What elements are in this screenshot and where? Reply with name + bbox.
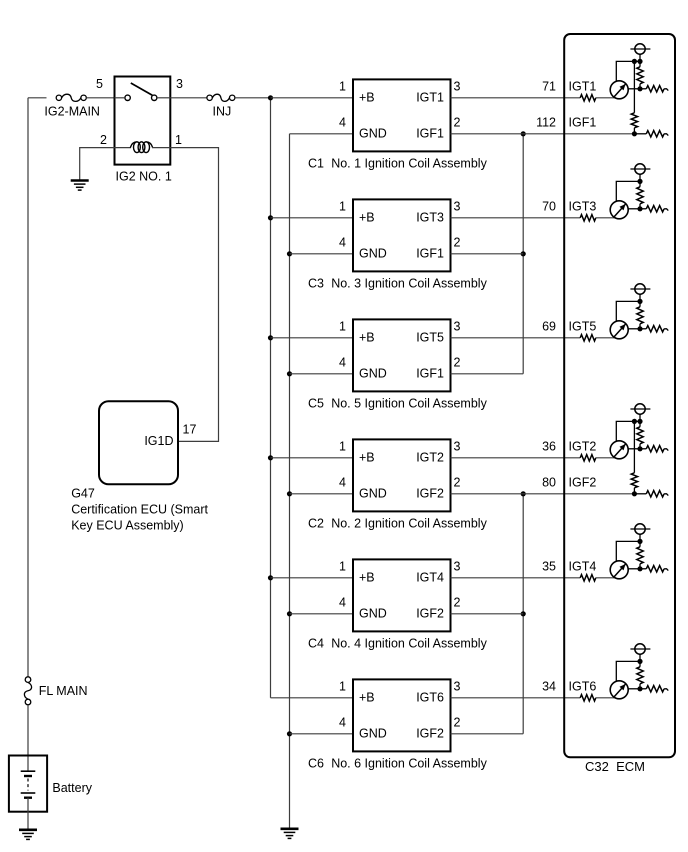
svg-text:1: 1 <box>339 559 346 573</box>
svg-text:80: 80 <box>542 475 556 489</box>
ECM net label IGT4 <box>569 559 597 573</box>
C2 label IGF2 <box>416 487 444 501</box>
wire: IGT4 resistor to transistor base <box>596 577 615 579</box>
svg-text:Certification ECU (Smart: Certification ECU (Smart <box>71 503 208 517</box>
svg-text:IGT1: IGT1 <box>569 79 597 93</box>
C6 pin 4 label <box>339 715 346 729</box>
node: IGF1 sense node <box>632 131 637 136</box>
svg-text:C32 ECM: C32 ECM <box>585 759 645 774</box>
wire: relay pin 1 to IG1D terminal 17 <box>170 148 218 442</box>
fuse FL MAIN <box>24 677 87 705</box>
resistor (collector pull-up IGT1) <box>637 61 643 88</box>
resistor (IGT3 base) <box>580 215 596 221</box>
wire: GND bus to C6 pin 4 <box>290 733 354 735</box>
resistor (IGT6 base) <box>580 695 596 701</box>
svg-text:IGT2: IGT2 <box>569 439 597 453</box>
svg-text:IGT5: IGT5 <box>569 319 597 333</box>
C5 pin 4 label <box>339 355 346 369</box>
svg-text:3: 3 <box>454 79 461 93</box>
C2 pin 4 label <box>339 475 346 489</box>
svg-text:4: 4 <box>339 115 346 129</box>
svg-text:34: 34 <box>542 679 556 693</box>
C5 label +B <box>359 331 375 345</box>
caption C32 ECM <box>585 759 645 774</box>
wire: +B bus to C1 pin 1 <box>271 97 354 99</box>
C3 pin 3 label <box>454 199 461 213</box>
wire: emitter link (IGT2) <box>616 421 640 441</box>
ignition coil C6 box <box>353 679 451 751</box>
relay switch contact (pin 3 side) <box>152 95 171 100</box>
svg-text:IG2 NO. 1: IG2 NO. 1 <box>116 170 172 184</box>
svg-text:IGF2: IGF2 <box>416 487 444 501</box>
wire: IGT1 resistor to transistor base <box>596 97 615 99</box>
C1 pin 3 label <box>454 79 461 93</box>
svg-text:2: 2 <box>100 133 107 147</box>
wire: IGT6 resistor to transistor base <box>596 697 615 699</box>
svg-text:1: 1 <box>339 79 346 93</box>
wire: +B bus to C2 pin 1 <box>271 457 354 459</box>
wire: GND bus to C2 pin 4 <box>290 493 354 495</box>
wire: IGT6 from C6 pin 3 to ECM <box>451 697 581 699</box>
wire: +B bus to C5 pin 1 <box>271 337 354 339</box>
caption C6 No. 6 Ignition Coil Assembly <box>308 756 488 770</box>
node: IGF2 bus at C4 <box>521 611 526 616</box>
svg-text:3: 3 <box>454 319 461 333</box>
resistor (collector pull-up IGT3) <box>637 181 643 208</box>
svg-text:C4: C4 <box>308 636 324 650</box>
svg-text:Key ECU Assembly): Key ECU Assembly) <box>71 519 184 533</box>
node: emitter junction (IGT6) <box>637 659 642 664</box>
fuse INJ <box>207 94 235 118</box>
ECM C32 box <box>564 34 675 757</box>
svg-text:IGF1: IGF1 <box>416 247 444 261</box>
node: emitter junction (IGT3) <box>637 179 642 184</box>
node: +B bus at INJ feed <box>268 95 273 100</box>
svg-text:IGT2: IGT2 <box>416 451 444 465</box>
wire: GND bus to C3 pin 4 <box>290 253 354 255</box>
node: GND bus junction row 6 <box>287 731 292 736</box>
C1 label +B <box>359 91 375 105</box>
wire: FL MAIN fuse to battery <box>27 705 29 771</box>
transistor Q (IGT5 output) <box>610 321 640 339</box>
C4 label IGT4 <box>416 571 444 585</box>
ECM net label IGT1 <box>569 79 597 93</box>
node: +B bus junction row 4 <box>268 455 273 460</box>
node: collector node (IGT2) <box>637 446 642 451</box>
relay switch contact (pin 5 side) <box>115 95 131 100</box>
svg-text:3: 3 <box>176 77 183 91</box>
node: emitter junction (IGT5) <box>637 299 642 304</box>
node: collector node (IGT5) <box>637 326 642 331</box>
ground (ignition coil GND bus) <box>281 829 299 839</box>
svg-text:C1: C1 <box>308 156 324 170</box>
svg-text:IG1D: IG1D <box>144 434 173 448</box>
resistor (collector pull-up IGT5) <box>637 301 643 328</box>
resistor (IGT2 base) <box>580 455 596 461</box>
wire: IGF1 from C3 pin 2 to IGF1 bus <box>451 253 524 255</box>
svg-text:IGF2: IGF2 <box>569 475 597 489</box>
svg-text:IGT4: IGT4 <box>569 559 597 573</box>
ECM pin 71 label (IGT1) <box>542 79 556 93</box>
wire: +B bus to C3 pin 1 <box>271 217 354 219</box>
caption Certification ECU line 2 <box>71 519 184 533</box>
pin 2 label <box>100 133 107 147</box>
C6 label IGT6 <box>416 691 444 705</box>
resistor (output network IGT5) <box>640 326 668 332</box>
C3 label GND <box>359 247 387 261</box>
resistor (IGT5 base) <box>580 335 596 341</box>
wire: IGT2 resistor to transistor base <box>596 457 615 459</box>
caption Certification ECU line 1 <box>71 503 208 517</box>
caption C1 No. 1 Ignition Coil Assembly <box>308 156 488 170</box>
C1 pin 1 label <box>339 79 346 93</box>
caption C4 No. 4 Ignition Coil Assembly <box>308 636 488 650</box>
C5 pin 3 label <box>454 319 461 333</box>
wire: IGT5 resistor to transistor base <box>596 337 615 339</box>
wire: GND bus to C1 pin 4 <box>290 133 354 135</box>
C5 pin 2 label <box>454 355 461 369</box>
svg-text:IGF2: IGF2 <box>416 607 444 621</box>
transistor Q (IGT3 output) <box>610 201 640 219</box>
wire: GND bus to C5 pin 4 <box>290 373 354 375</box>
relay switch blade <box>131 83 153 95</box>
power source symbol (IGT5 driver) <box>630 284 650 302</box>
wire: IGT5 from C5 pin 3 to ECM <box>451 337 581 339</box>
resistor (output network IGT4) <box>640 566 668 572</box>
wire: IGT4 from C4 pin 3 to ECM <box>451 577 581 579</box>
wire: relay pin 2 lead <box>115 147 132 149</box>
node: GND bus junction row 4 <box>287 491 292 496</box>
caption C5 No. 5 Ignition Coil Assembly <box>308 396 488 410</box>
ECM net label IGT3 <box>569 199 597 213</box>
C3 label +B <box>359 211 375 225</box>
resistor (sense network IGF1) <box>634 131 668 137</box>
ECM net label IGF2 <box>569 475 597 489</box>
transistor Q (IGT1 output) <box>610 81 640 99</box>
svg-text:3: 3 <box>454 559 461 573</box>
caption G47 <box>71 487 95 501</box>
svg-text:IGT5: IGT5 <box>416 331 444 345</box>
svg-text:+B: +B <box>359 691 375 705</box>
C3 label IGF1 <box>416 247 444 261</box>
ECM pin 112 label (IGF1) <box>536 115 556 129</box>
svg-text:+B: +B <box>359 571 375 585</box>
power source symbol (IGT6 driver) <box>630 644 650 662</box>
node: IGF2 bus at C2 <box>521 491 526 496</box>
svg-text:Battery: Battery <box>52 781 92 795</box>
svg-text:4: 4 <box>339 235 346 249</box>
resistor (IGF1 divider) <box>631 113 637 134</box>
node: emitter junction (IGT1) <box>637 59 642 64</box>
wire: IGF2 from C6 pin 2 to IGF2 bus <box>451 733 524 735</box>
C1 pin 4 label <box>339 115 346 129</box>
svg-text:+B: +B <box>359 211 375 225</box>
C2 pin 2 label <box>454 475 461 489</box>
C4 pin 3 label <box>454 559 461 573</box>
wire: +B bus to C6 pin 1 <box>271 697 354 699</box>
svg-text:IGT6: IGT6 <box>416 691 444 705</box>
wire: IGF2 from C4 pin 2 to IGF2 bus <box>451 613 524 615</box>
svg-text:C5: C5 <box>308 396 324 410</box>
battery box <box>9 756 47 812</box>
ignition coil C1 box <box>353 79 451 151</box>
resistor (collector pull-up IGT4) <box>637 541 643 568</box>
C3 pin 4 label <box>339 235 346 249</box>
C4 label +B <box>359 571 375 585</box>
C1 label GND <box>359 127 387 141</box>
wire: battery negative to ground <box>27 798 29 830</box>
power source symbol (IGT4 driver) <box>630 524 650 542</box>
svg-text:No. 1 Ignition Coil Assembly: No. 1 Ignition Coil Assembly <box>331 156 487 170</box>
C4 pin 2 label <box>454 595 461 609</box>
wire: IGF1 from C5 pin 2 to IGF1 bus <box>451 373 524 375</box>
C2 label GND <box>359 487 387 501</box>
svg-text:4: 4 <box>339 475 346 489</box>
node: emitter junction (IGT2) <box>637 419 642 424</box>
svg-text:No. 3 Ignition Coil Assembly: No. 3 Ignition Coil Assembly <box>331 276 487 290</box>
svg-text:+B: +B <box>359 91 375 105</box>
resistor (IGT1 base) <box>580 95 596 101</box>
C6 label GND <box>359 727 387 741</box>
svg-text:IGT1: IGT1 <box>416 91 444 105</box>
ECM pin 34 label (IGT6) <box>542 679 556 693</box>
pin 3 label <box>176 77 183 91</box>
wire: +B distribution bus vertical <box>270 98 272 698</box>
svg-text:1: 1 <box>339 319 346 333</box>
svg-text:1: 1 <box>339 199 346 213</box>
power source symbol (IGT2 driver) <box>630 404 650 422</box>
svg-text:35: 35 <box>542 559 556 573</box>
wire: IGF1 divider branch <box>633 61 635 112</box>
node: GND bus junction row 3 <box>287 371 292 376</box>
fuse IG2-MAIN <box>44 94 100 118</box>
resistor (IGF2 divider) <box>631 473 637 494</box>
node: +B bus junction row 3 <box>268 335 273 340</box>
C4 pin 4 label <box>339 595 346 609</box>
wire: battery B+ bus vertical (left side) <box>27 98 29 677</box>
C6 label +B <box>359 691 375 705</box>
resistor (output network IGT2) <box>640 446 668 452</box>
resistor (collector pull-up IGT6) <box>637 661 643 688</box>
svg-text:36: 36 <box>542 439 556 453</box>
svg-text:No. 4 Ignition Coil Assembly: No. 4 Ignition Coil Assembly <box>331 636 487 650</box>
svg-text:GND: GND <box>359 727 387 741</box>
wire: IGT1 from C1 pin 3 to ECM <box>451 97 581 99</box>
svg-text:2: 2 <box>454 115 461 129</box>
relay IG2 NO. 1 box <box>115 77 171 165</box>
wire: coil GND bus vertical <box>289 134 291 829</box>
relay coil winding <box>130 142 152 153</box>
svg-text:4: 4 <box>339 595 346 609</box>
svg-text:IGF1: IGF1 <box>569 115 597 129</box>
svg-text:1: 1 <box>339 439 346 453</box>
caption C3 No. 3 Ignition Coil Assembly <box>308 276 488 290</box>
C5 label GND <box>359 367 387 381</box>
wire: emitter link (IGT1) <box>616 61 640 81</box>
ignition coil C4 box <box>353 559 451 631</box>
C2 pin 1 label <box>339 439 346 453</box>
svg-text:IG2-MAIN: IG2-MAIN <box>44 105 100 119</box>
svg-text:+B: +B <box>359 451 375 465</box>
resistor (IGT4 base) <box>580 575 596 581</box>
svg-text:IGT6: IGT6 <box>569 679 597 693</box>
resistor (output network IGT3) <box>640 206 668 212</box>
svg-text:GND: GND <box>359 247 387 261</box>
svg-text:C3: C3 <box>308 276 324 290</box>
C4 label IGF2 <box>416 607 444 621</box>
node: IGF2 sense node <box>632 491 637 496</box>
C6 label IGF2 <box>416 727 444 741</box>
ECU G47 box (IG1D) <box>99 401 178 484</box>
node: IGF1 bus at C1 <box>521 131 526 136</box>
pin 5 label <box>96 77 103 91</box>
wire: relay pin 3 to INJ fuse <box>170 97 207 99</box>
C3 pin 1 label <box>339 199 346 213</box>
ECM net label IGT5 <box>569 319 597 333</box>
svg-text:No. 6 Ignition Coil Assembly: No. 6 Ignition Coil Assembly <box>331 756 487 770</box>
svg-text:IGF1: IGF1 <box>416 367 444 381</box>
wire: B+ bus to IG2-MAIN fuse <box>28 97 47 99</box>
power source symbol (IGT3 driver) <box>630 164 650 182</box>
svg-text:IGT3: IGT3 <box>569 199 597 213</box>
wire: IGF1 feedback bus vertical <box>522 134 524 374</box>
svg-text:IGF2: IGF2 <box>416 727 444 741</box>
svg-text:+B: +B <box>359 331 375 345</box>
node: collector node (IGT6) <box>637 686 642 691</box>
svg-text:2: 2 <box>454 595 461 609</box>
wire: emitter link (IGT5) <box>616 301 640 321</box>
svg-text:3: 3 <box>454 679 461 693</box>
node: collector node (IGT3) <box>637 206 642 211</box>
svg-text:2: 2 <box>454 475 461 489</box>
caption C2 No. 2 Ignition Coil Assembly <box>308 516 488 530</box>
svg-text:70: 70 <box>542 199 556 213</box>
node: +B bus junction row 5 <box>268 575 273 580</box>
node: +B bus junction row 2 <box>268 215 273 220</box>
svg-text:71: 71 <box>542 79 556 93</box>
node: collector node (IGT4) <box>637 566 642 571</box>
ECM net label IGT2 <box>569 439 597 453</box>
wire: relay pin 2 to ground <box>80 148 115 181</box>
svg-text:No. 5 Ignition Coil Assembly: No. 5 Ignition Coil Assembly <box>331 396 487 410</box>
node: GND bus junction row 2 <box>287 251 292 256</box>
wire: IGT3 from C3 pin 3 to ECM <box>451 217 581 219</box>
ECM pin 70 label (IGT3) <box>542 199 556 213</box>
C3 label IGT3 <box>416 211 444 225</box>
C5 pin 1 label <box>339 319 346 333</box>
C2 label +B <box>359 451 375 465</box>
ECM pin 69 label (IGT5) <box>542 319 556 333</box>
ECM pin 80 label (IGF2) <box>542 475 556 489</box>
ignition coil C3 box <box>353 199 451 271</box>
ECM pin 35 label (IGT4) <box>542 559 556 573</box>
wire: IGF1 from C1 pin 2 to ECM <box>451 133 635 135</box>
transistor Q (IGT2 output) <box>610 441 640 459</box>
ECM net label IGF1 <box>569 115 597 129</box>
svg-text:112: 112 <box>536 115 556 129</box>
C1 label IGF1 <box>416 127 444 141</box>
battery symbol <box>21 771 36 798</box>
wire: INJ fuse to node at +B bus <box>235 97 271 99</box>
transistor Q (IGT4 output) <box>610 561 640 579</box>
svg-text:G47: G47 <box>71 487 95 501</box>
node: GND bus junction row 5 <box>287 611 292 616</box>
svg-text:3: 3 <box>454 439 461 453</box>
node: emitter junction (IGT4) <box>637 539 642 544</box>
svg-text:IGF1: IGF1 <box>416 127 444 141</box>
wire: IGF2 feedback bus vertical <box>522 494 524 734</box>
svg-text:4: 4 <box>339 355 346 369</box>
label Battery <box>52 781 92 795</box>
resistor (collector pull-up IGT2) <box>637 421 643 448</box>
resistor (output network IGT1) <box>640 86 668 92</box>
C3 pin 2 label <box>454 235 461 249</box>
svg-text:IGT3: IGT3 <box>416 211 444 225</box>
C4 pin 1 label <box>339 559 346 573</box>
svg-text:GND: GND <box>359 127 387 141</box>
wire: IGF2 from C2 pin 2 to ECM <box>451 493 635 495</box>
C6 pin 1 label <box>339 679 346 693</box>
ignition coil C5 box <box>353 319 451 391</box>
wire: IG2-MAIN fuse to relay pin 5 <box>86 97 114 99</box>
svg-text:2: 2 <box>454 235 461 249</box>
svg-text:2: 2 <box>454 355 461 369</box>
svg-text:3: 3 <box>454 199 461 213</box>
svg-text:1: 1 <box>175 133 182 147</box>
power source symbol (IGT1 driver) <box>630 44 650 62</box>
svg-text:IGT4: IGT4 <box>416 571 444 585</box>
wire: emitter link (IGT3) <box>616 181 640 201</box>
pin 1 label <box>175 133 182 147</box>
caption IG2 NO. 1 <box>116 170 172 184</box>
svg-text:GND: GND <box>359 367 387 381</box>
svg-text:69: 69 <box>542 319 556 333</box>
C2 pin 3 label <box>454 439 461 453</box>
C5 label IGF1 <box>416 367 444 381</box>
wire: IGT3 resistor to transistor base <box>596 217 615 219</box>
C5 label IGT5 <box>416 331 444 345</box>
svg-text:2: 2 <box>454 715 461 729</box>
resistor (sense network IGF2) <box>634 491 668 497</box>
svg-text:C2: C2 <box>308 516 324 530</box>
wire: emitter link (IGT6) <box>616 661 640 681</box>
svg-text:17: 17 <box>183 423 197 437</box>
svg-text:C6: C6 <box>308 756 324 770</box>
transistor Q (IGT6 output) <box>610 681 640 699</box>
wire: IGT2 from C2 pin 3 to ECM <box>451 457 581 459</box>
svg-text:GND: GND <box>359 487 387 501</box>
wire: relay coil to pin 1 <box>152 147 170 149</box>
svg-text:INJ: INJ <box>213 105 232 119</box>
pin 17 label <box>183 423 197 437</box>
svg-text:FL MAIN: FL MAIN <box>39 684 88 698</box>
svg-text:5: 5 <box>96 77 103 91</box>
C1 pin 2 label <box>454 115 461 129</box>
svg-text:No. 2 Ignition Coil Assembly: No. 2 Ignition Coil Assembly <box>331 516 487 530</box>
svg-text:GND: GND <box>359 607 387 621</box>
node: IGF branch on emitter link (IGF2) <box>632 419 637 424</box>
wire: IGF2 divider branch <box>633 421 635 472</box>
C2 label IGT2 <box>416 451 444 465</box>
ignition coil C2 box <box>353 439 451 511</box>
svg-text:1: 1 <box>339 679 346 693</box>
node: IGF branch on emitter link (IGF1) <box>632 59 637 64</box>
wire: +B bus to C4 pin 1 <box>271 577 354 579</box>
C1 label IGT1 <box>416 91 444 105</box>
ECM pin 36 label (IGT2) <box>542 439 556 453</box>
ground (relay coil) <box>71 181 89 191</box>
wire: emitter link (IGT4) <box>616 541 640 561</box>
